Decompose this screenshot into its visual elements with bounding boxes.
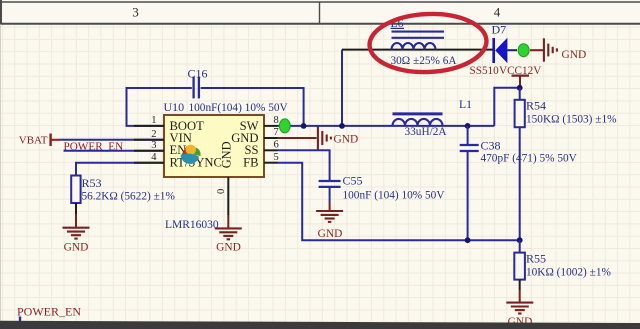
colorful splat icon on EN — [181, 145, 201, 164]
wire SS to C55 — [278, 150, 330, 180]
capacitor C16 — [194, 77, 199, 99]
svg-text:7: 7 — [274, 127, 279, 138]
pin stubs right black — [264, 126, 278, 163]
svg-text:10KΩ (1002) ±1%: 10KΩ (1002) ±1% — [526, 267, 611, 279]
svg-text:GND: GND — [64, 242, 89, 254]
svg-text:R54: R54 — [526, 99, 546, 113]
svg-text:D7: D7 — [492, 23, 507, 37]
title border band top — [0, 0, 640, 24]
svg-text:1: 1 — [151, 115, 156, 126]
green highlight dot at D7 — [518, 44, 529, 57]
svg-text:C38: C38 — [481, 138, 501, 152]
svg-text:VBAT: VBAT — [19, 135, 48, 147]
wire stub bottom left — [19, 317, 21, 324]
wire FB feedback — [278, 163, 520, 241]
pin numbers right 8 7 6 5 — [274, 115, 279, 163]
svg-text:R55: R55 — [526, 251, 546, 265]
pin stub bottom pad — [227, 177, 229, 215]
svg-text:SS510: SS510 — [470, 65, 500, 77]
resistor R54 — [515, 100, 525, 127]
wire POWER_EN to EN — [64, 150, 165, 152]
svg-text:POWER_EN: POWER_EN — [17, 304, 81, 318]
svg-text:GND: GND — [334, 133, 359, 145]
svg-text:5: 5 — [274, 152, 279, 163]
svg-text:3: 3 — [151, 140, 156, 151]
wire to R55 — [519, 240, 521, 252]
wire SW to L6 to D7 top run — [342, 49, 493, 51]
wire R55 to gnd — [519, 280, 521, 290]
svg-text:0: 0 — [216, 189, 227, 194]
ground sideways at pin7 — [318, 126, 331, 150]
ground under R53 — [63, 228, 90, 239]
svg-text:GND: GND — [216, 242, 241, 254]
svg-text:150KΩ (1503) ±1%: 150KΩ (1503) ±1% — [526, 113, 617, 125]
ground under R55 — [506, 303, 533, 314]
resistor R55 — [514, 253, 525, 280]
wire RT/SYNC to R53 — [76, 163, 164, 176]
wire VBAT to VIN — [61, 139, 165, 141]
junction L6/SW — [339, 123, 345, 129]
svg-text:2: 2 — [151, 129, 156, 140]
svg-text:U10: U10 — [164, 100, 185, 114]
capacitor C38 — [460, 145, 479, 151]
green highlight dot on SW — [279, 119, 290, 133]
wire L1 out up to VCC — [494, 88, 519, 126]
svg-text:FB: FB — [243, 155, 258, 169]
svg-text:R53: R53 — [82, 176, 102, 190]
svg-text:30Ω ±25% 6A: 30Ω ±25% 6A — [391, 55, 458, 67]
bottom dark band — [0, 321, 640, 329]
port VBAT — [19, 134, 61, 147]
svg-text:4: 4 — [494, 5, 501, 20]
wire SW node — [278, 50, 495, 126]
junction C38/FB — [465, 237, 471, 243]
wire BOOT to C16 loop — [127, 88, 304, 126]
pin stubs left black — [134, 126, 164, 163]
pin names right — [231, 119, 258, 170]
capacitor C55 — [319, 181, 341, 187]
power port VCC12V — [499, 65, 541, 88]
svg-text:4: 4 — [151, 152, 157, 163]
wire L1 to C38 — [467, 126, 469, 144]
svg-text:GND: GND — [220, 141, 234, 168]
svg-text:GND: GND — [562, 49, 587, 61]
svg-text:470pF (471) 5% 50V: 470pF (471) 5% 50V — [481, 153, 578, 165]
inductor L1 — [393, 114, 443, 126]
wire GND pin to side ground — [278, 137, 317, 139]
wire C55 to gnd — [329, 188, 331, 202]
inductor L6 — [392, 32, 445, 50]
svg-text:6: 6 — [274, 139, 279, 150]
svg-text:8: 8 — [274, 115, 279, 126]
junction L1/C38 — [465, 123, 471, 129]
junction VCC node — [517, 85, 523, 91]
svg-text:GND: GND — [318, 228, 343, 240]
svg-text:100nF(104) 10% 50V: 100nF(104) 10% 50V — [189, 102, 289, 114]
pin names left — [170, 119, 222, 170]
pin numbers left 1 2 3 4 — [151, 115, 157, 163]
svg-text:C16: C16 — [188, 66, 208, 80]
svg-text:33uH/2A: 33uH/2A — [405, 126, 448, 138]
wire R53 to gnd — [75, 203, 77, 214]
red annotation ellipse around L6 — [368, 11, 487, 74]
ground under pad — [215, 228, 242, 239]
wire VCC to R54 — [519, 88, 521, 100]
resistor R53 — [71, 176, 80, 204]
photo edge left — [0, 24, 2, 322]
wire D7 to gnd — [507, 49, 517, 51]
svg-text:100nF (104) 10% 50V: 100nF (104) 10% 50V — [343, 189, 446, 201]
diode D7 — [494, 38, 508, 63]
junction C16/SW — [301, 123, 307, 129]
svg-text:56.2KΩ (5622) ±1%: 56.2KΩ (5622) ±1% — [82, 190, 176, 202]
wire C38 down — [467, 152, 469, 240]
ground under C55 — [316, 211, 343, 222]
svg-text:C55: C55 — [343, 173, 363, 187]
svg-text:LMR16030: LMR16030 — [165, 219, 219, 231]
wire pad to gnd — [227, 215, 229, 228]
junction R54/R55 — [517, 237, 523, 243]
svg-text:3: 3 — [132, 5, 139, 20]
wire R54 down — [519, 127, 521, 240]
ic U10 body — [164, 115, 264, 177]
ground sideways top right — [544, 38, 557, 61]
svg-text:L1: L1 — [459, 98, 472, 111]
